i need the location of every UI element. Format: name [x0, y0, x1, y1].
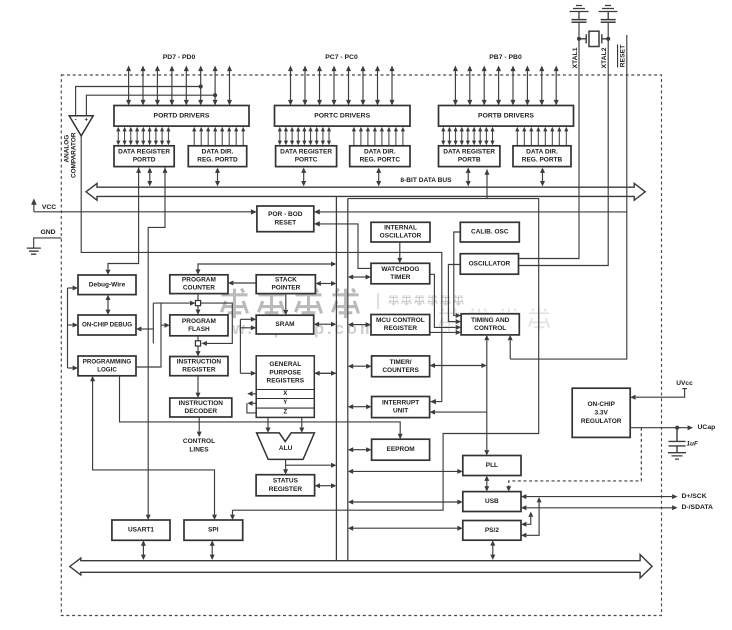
block PORTB DRIVERS — [439, 106, 574, 127]
wire D-/SDATA line — [521, 505, 678, 510]
svg-text:DECODER: DECODER — [185, 408, 218, 415]
block STACK POINTER — [256, 275, 315, 294]
ground symbol above XTAL1 cap — [570, 6, 589, 20]
wire portD register comb 2 — [129, 127, 133, 145]
wire portD register comb 1 — [123, 127, 127, 145]
wire RESET line to POR-BOD — [314, 209, 627, 214]
block USART1 — [112, 520, 170, 540]
svg-text:REG. PORTD: REG. PORTD — [197, 157, 238, 164]
wire PB6 pin arrow — [467, 66, 472, 106]
svg-text:PORTB DRIVERS: PORTB DRIVERS — [478, 112, 534, 119]
ground symbol below 1uF cap — [668, 453, 686, 459]
wire mcu control to timing and control — [430, 330, 461, 335]
svg-text:REG. PORTC: REG. PORTC — [360, 157, 401, 164]
svg-text:SRAM: SRAM — [275, 321, 294, 328]
wire debug branch to program flash left — [161, 303, 170, 328]
wire portD dir comb 7 — [241, 127, 245, 145]
block TIMER COUNTERS — [372, 356, 430, 377]
capacitor C3 1uF — [669, 428, 686, 453]
wire portC dir comb 6 — [394, 127, 398, 145]
ground symbol above XTAL2 cap — [599, 6, 618, 20]
wire PB2 pin arrow — [525, 66, 530, 106]
wire portD dir comb 2 — [206, 127, 210, 145]
svg-text:DATA DIR.: DATA DIR. — [202, 149, 234, 156]
block TIMING AND CONTROL — [461, 314, 519, 335]
wire oscillator to timing and control — [448, 265, 461, 325]
wire gpr to trunk1 — [314, 372, 336, 374]
block PROGRAM COUNTER — [170, 275, 228, 294]
wire portB register comb 4 — [466, 127, 470, 145]
svg-text:PURPOSE: PURPOSE — [269, 369, 301, 376]
svg-text:GENERAL: GENERAL — [269, 361, 301, 368]
wire portD register comb 7 — [160, 127, 164, 145]
svg-text:CONTROL: CONTROL — [474, 325, 506, 332]
svg-text:D-/SDATA: D-/SDATA — [682, 504, 714, 511]
wire data dir portC to bus — [376, 168, 381, 187]
svg-text:UNIT: UNIT — [393, 408, 408, 415]
wire portC register comb 4 — [302, 127, 306, 145]
svg-text:1uF: 1uF — [687, 440, 699, 447]
block CALIB OSC — [460, 222, 519, 242]
svg-text:D+/SCK: D+/SCK — [682, 493, 707, 500]
svg-text:REGISTER: REGISTER — [269, 486, 303, 493]
wire interrupt unit to trunk2 — [348, 404, 372, 409]
svg-text:EEPROM: EEPROM — [387, 446, 415, 453]
wire portB dir comb 2 — [529, 127, 533, 145]
wire PD5 pin arrow — [155, 66, 160, 106]
VCC pin arrow — [31, 198, 37, 211]
svg-text:DATA DIR.: DATA DIR. — [364, 149, 396, 156]
wire PB5 pin arrow — [482, 66, 487, 106]
svg-text:PLL: PLL — [486, 462, 498, 469]
svg-text:COMPARATOR: COMPARATOR — [71, 132, 78, 178]
wire GND stub — [34, 238, 62, 248]
wire usart1 to bottom bus — [141, 540, 146, 560]
wire portB dir comb 7 — [564, 127, 568, 145]
wire portB register comb 2 — [454, 127, 458, 145]
wire PB3 pin arrow — [511, 66, 516, 106]
block ALU — [257, 433, 315, 460]
wire portB dir comb 1 — [522, 127, 526, 145]
block ON-CHIP 3.3V REGULATOR — [572, 388, 630, 437]
wire on-chip debug to fetch nodes — [136, 327, 153, 332]
block POR-BOD RESET — [257, 206, 314, 232]
svg-text:INSTRUCTION: INSTRUCTION — [179, 400, 224, 407]
wire instruction decoder control lines arrow — [197, 417, 202, 437]
wire portB register comb 1 — [447, 127, 451, 145]
svg-text:Z: Z — [283, 410, 287, 416]
block OSCILLATOR — [460, 254, 518, 275]
block SPI — [184, 520, 243, 540]
chip boundary dashed border — [61, 75, 661, 616]
wire ps2 to bottom bus — [490, 540, 495, 560]
svg-text:POR - BOD: POR - BOD — [268, 211, 303, 218]
wire portB register comb 6 — [478, 127, 482, 145]
svg-text:Debug-Wire: Debug-Wire — [89, 281, 126, 288]
wire portC dir comb 2 — [366, 127, 370, 145]
wire PB4 pin arrow — [496, 66, 501, 106]
wire pll to trunk2 — [348, 469, 463, 474]
wire alu to status register — [283, 465, 288, 475]
wire instruction net to sram and gpr — [240, 317, 256, 376]
wire internal bus trunk 2 — [347, 199, 349, 561]
wire XTAL1 vertical — [519, 22, 580, 258]
svg-text:REGULATOR: REGULATOR — [581, 418, 622, 425]
wire portD register comb 6 — [154, 127, 158, 145]
block PROGRAMMING LOGIC — [78, 356, 136, 376]
wire portB dir comb 6 — [557, 127, 561, 145]
wire timer counters to trunk2 — [348, 364, 372, 369]
block INTERNAL OSCILLATOR — [371, 222, 430, 242]
wire portD dir comb 6 — [234, 127, 238, 145]
svg-text:MCU CONTROL: MCU CONTROL — [376, 317, 425, 324]
ground symbol GND — [27, 248, 41, 254]
wire X row pointer — [247, 391, 256, 396]
block INTERRUPT UNIT — [372, 397, 430, 418]
wire D+/SCK line — [521, 494, 678, 499]
wire portC register comb 6 — [315, 127, 319, 145]
svg-text:XTAL1: XTAL1 — [572, 47, 579, 68]
wire instruction register to decoder — [196, 376, 201, 398]
wire portD dir comb 4 — [220, 127, 224, 145]
wire PC6 pin arrow — [303, 66, 308, 106]
wire portB dir comb 4 — [543, 127, 547, 145]
label RESET with overline — [618, 44, 627, 68]
block PLL — [463, 456, 521, 476]
block DATA DIR REG PORTD — [188, 146, 246, 167]
svg-text:TIMER: TIMER — [390, 274, 411, 281]
wire calib osc to timing and control — [454, 232, 461, 318]
block Debug-Wire — [78, 275, 136, 295]
wire spi to bottom bus — [210, 540, 215, 560]
wire PD4 pin arrow — [169, 66, 174, 106]
wire PD6 pin arrow — [141, 66, 146, 106]
wire program counter to fetch node — [197, 294, 199, 301]
wire portC dir comb 5 — [387, 127, 391, 145]
svg-text:RESET: RESET — [619, 44, 626, 68]
block DATA REGISTER PORTC — [276, 146, 337, 167]
wire internal net to SPI — [230, 510, 235, 520]
svg-text:STATUS: STATUS — [273, 478, 299, 485]
wire debug port stub with arrows — [68, 286, 79, 371]
wire portC register comb 1 — [284, 127, 288, 145]
svg-text:LINES: LINES — [189, 447, 209, 454]
wire portD register comb 0 — [116, 127, 120, 145]
crystal Y1 — [577, 31, 610, 46]
wire status register to trunk1 — [315, 483, 337, 488]
wire PD1 pin arrow — [213, 66, 218, 106]
wire usb to trunk2 — [348, 500, 463, 505]
wire PD7 pin arrow — [126, 66, 131, 106]
wire Y row pointer — [247, 401, 256, 406]
svg-text:CONTROL: CONTROL — [183, 438, 215, 445]
wire PC3 pin arrow — [346, 66, 351, 106]
wire sram to trunk1 — [314, 322, 337, 327]
analog comparator input wire 1 — [76, 84, 203, 115]
svg-text:ANALOG: ANALOG — [63, 135, 70, 163]
block DATA REGISTER PORTB — [439, 146, 500, 167]
wire watchdog to trunk2 — [348, 275, 371, 280]
wire PC5 pin arrow — [317, 66, 322, 106]
svg-text:PORTC: PORTC — [295, 157, 318, 164]
wire stack pointer to trunk1 — [316, 281, 337, 286]
svg-text:XTAL2: XTAL2 — [601, 47, 608, 68]
wire portC dir comb 4 — [380, 127, 384, 145]
svg-text:WATCHDOG: WATCHDOG — [381, 266, 419, 273]
wire portB register comb 7 — [484, 127, 488, 145]
wire portC dir comb 3 — [373, 127, 377, 145]
svg-text:X: X — [283, 391, 287, 397]
wire mcu control to trunk2 — [348, 322, 371, 327]
svg-text:DATA DIR.: DATA DIR. — [526, 149, 558, 156]
wire portC register comb 3 — [296, 127, 300, 145]
block PORTD DRIVERS — [114, 106, 249, 127]
svg-text:USART1: USART1 — [128, 527, 154, 534]
wire square1 to program flash — [196, 306, 201, 315]
wire portB register comb 3 — [460, 127, 464, 145]
wire data register portC to bus — [301, 168, 306, 187]
wire fetch loop around flash — [201, 303, 233, 346]
block MCU CONTROL REGISTER — [371, 315, 430, 335]
svg-text:REGISTER: REGISTER — [384, 325, 418, 332]
wire portB register comb 8 — [490, 127, 494, 145]
wire portC register comb 8 — [327, 127, 331, 145]
watermark faint hanzi center — [439, 308, 549, 331]
wire usb to ps2 link — [521, 512, 533, 527]
wire ps2 to trunk2 — [348, 526, 463, 531]
block INSTRUCTION REGISTER — [170, 357, 228, 376]
wire portD register comb 3 — [135, 127, 139, 145]
wire program flash to square 2 — [197, 336, 199, 341]
svg-text:UCap: UCap — [698, 424, 716, 431]
wire portD register comb 5 — [148, 127, 152, 145]
wire stack pointer to program counter — [228, 281, 256, 286]
svg-text:REGISTERS: REGISTERS — [267, 378, 305, 385]
wire portC dir comb 0 — [352, 127, 356, 145]
wire PC4 pin arrow — [332, 66, 337, 106]
bus 8-bit data bus bottom arrow — [70, 555, 652, 578]
wire PD3 pin arrow — [184, 66, 189, 106]
wire portD register to USART1 — [146, 168, 168, 521]
svg-text:OSCILLATOR: OSCILLATOR — [380, 233, 422, 240]
wire PB7 pin arrow — [453, 66, 458, 106]
wire PC1 pin arrow — [375, 66, 380, 106]
wire debug vertical to squares — [153, 301, 195, 344]
svg-text:PB7 - PB0: PB7 - PB0 — [489, 54, 522, 61]
svg-text:-: - — [75, 118, 77, 124]
svg-text:INTERNAL: INTERNAL — [384, 225, 417, 232]
svg-text:DATA REGISTER: DATA REGISTER — [443, 149, 495, 156]
svg-text:PORTC DRIVERS: PORTC DRIVERS — [314, 112, 370, 119]
svg-text:PORTD DRIVERS: PORTD DRIVERS — [154, 112, 210, 119]
svg-text:COUNTERS: COUNTERS — [382, 367, 419, 374]
wire timer counters to spine — [430, 363, 487, 368]
svg-text:INSTRUCTION: INSTRUCTION — [177, 359, 222, 366]
svg-text:+: + — [84, 118, 88, 124]
wire watchdog to POR-BOD — [314, 221, 372, 268]
wire portC register comb 7 — [321, 127, 325, 145]
wire portD register comb 4 — [141, 127, 145, 145]
wire portD register comb 8 — [166, 127, 170, 145]
wire eeprom to trunk2 — [348, 447, 372, 452]
svg-text:USB: USB — [485, 498, 499, 505]
svg-text:TIMER/: TIMER/ — [390, 359, 412, 366]
block SRAM — [256, 315, 314, 334]
wire data dir portD to bus — [215, 168, 220, 187]
svg-text:CALIB. OSC: CALIB. OSC — [471, 229, 509, 236]
svg-text:STACK: STACK — [275, 277, 297, 284]
wire timing control vertical spine — [484, 335, 489, 456]
svg-text:DATA REGISTER: DATA REGISTER — [118, 149, 170, 156]
wire square2 to instruction register — [196, 346, 201, 357]
svg-text:GND: GND — [40, 229, 55, 236]
wire portD dir comb 3 — [213, 127, 217, 145]
wire internal oscillator to watchdog — [397, 242, 402, 263]
svg-text:PROGRAM: PROGRAM — [182, 277, 216, 284]
block PROGRAM FLASH — [170, 315, 228, 336]
wire debug-wire to on-chip debug — [106, 295, 111, 315]
wire programming logic to EEPROM — [120, 376, 403, 439]
wire portC dir comb 1 — [359, 127, 363, 145]
wire data register portB to bus — [466, 168, 471, 187]
svg-text:PORTD: PORTD — [133, 157, 156, 164]
wire gpr to alu left — [266, 417, 271, 433]
svg-text:POINTER: POINTER — [271, 285, 300, 292]
wire dplus line to ps2 link — [521, 497, 542, 538]
block STATUS REGISTER — [256, 475, 315, 496]
capacitor C1 on XTAL1 — [572, 20, 587, 23]
node fetch square 1 — [195, 301, 200, 306]
svg-text:PORTB: PORTB — [458, 157, 481, 164]
wire program counter to trunk1 — [196, 262, 337, 275]
svg-text:OSCILLATOR: OSCILLATOR — [469, 260, 511, 267]
wire RESET vertical — [510, 35, 627, 359]
wire alu output to trunk1 — [286, 459, 337, 467]
wire XTAL2 vertical — [519, 22, 609, 265]
svg-text:PS/2: PS/2 — [485, 527, 499, 534]
wire portD register to debug-wire — [106, 168, 142, 276]
wire stack pointer to sram — [283, 294, 288, 316]
wire portD dir comb 0 — [192, 127, 196, 145]
svg-text:ON-CHIP DEBUG: ON-CHIP DEBUG — [82, 322, 132, 329]
node fetch square 2 — [195, 341, 200, 346]
wire PD0 pin arrow — [227, 66, 232, 106]
wire portD dir comb 5 — [227, 127, 231, 145]
wire portC register comb 0 — [278, 127, 282, 145]
wire programming logic to SPI feed — [90, 376, 217, 520]
watermark hanzi small right — [378, 293, 463, 309]
block WATCHDOG TIMER — [371, 263, 430, 284]
watermark big hanzi — [221, 289, 358, 318]
wire portC register comb 5 — [308, 127, 312, 145]
wire data register portD to bus — [147, 168, 152, 187]
svg-text:PROGRAMMING: PROGRAMMING — [83, 358, 132, 365]
block INSTRUCTION DECODER — [170, 398, 232, 417]
wire analog comparator output to interrupt unit — [81, 136, 442, 404]
wire internal bus trunk 1 — [335, 196, 337, 560]
wire portC register comb 2 — [290, 127, 294, 145]
wire PC2 pin arrow — [361, 66, 366, 106]
svg-text:VCC: VCC — [42, 204, 56, 211]
wire PB1 pin arrow — [539, 66, 544, 106]
wire portD dir comb 1 — [199, 127, 203, 145]
bus 8-bit data bus top arrow — [86, 183, 645, 200]
svg-text:FLASH: FLASH — [188, 326, 210, 333]
block PS2 — [463, 521, 521, 541]
svg-text:COUNTER: COUNTER — [183, 285, 215, 292]
block DATA DIR REG PORTC — [350, 146, 410, 167]
wire spine to interrupt unit — [430, 410, 487, 415]
block PORTC DRIVERS — [275, 106, 411, 127]
wire portC dir comb 7 — [401, 127, 405, 145]
wire portB dir comb 3 — [536, 127, 540, 145]
wire portB register comb 0 — [441, 127, 445, 145]
block ON-CHIP DEBUG — [78, 315, 136, 335]
svg-text:INTERRUPT: INTERRUPT — [382, 400, 419, 407]
wire PC0 pin arrow — [390, 66, 395, 106]
svg-text:DATA REGISTER: DATA REGISTER — [280, 149, 332, 156]
svg-text:PD7 - PD0: PD7 - PD0 — [163, 54, 196, 61]
svg-text:UVcc: UVcc — [676, 380, 693, 387]
block DATA REGISTER PORTD — [114, 146, 174, 167]
svg-text:LOGIC: LOGIC — [97, 366, 117, 373]
svg-text:8-BIT DATA BUS: 8-BIT DATA BUS — [400, 177, 452, 184]
wire PC7 pin arrow — [288, 66, 293, 106]
wire watchdog to timing and control — [430, 274, 461, 330]
block DATA DIR REG PORTB — [513, 146, 571, 167]
wire PD2 pin arrow — [198, 66, 203, 106]
block USB — [463, 492, 521, 512]
wire programming logic right to flash net — [136, 325, 161, 367]
svg-text:REG. PORTB: REG. PORTB — [522, 157, 563, 164]
wire UVcc to regulator — [630, 389, 687, 400]
svg-text:PROGRAM: PROGRAM — [182, 318, 216, 325]
svg-text:PC7 - PC0: PC7 - PC0 — [325, 54, 358, 61]
svg-text:REGISTER: REGISTER — [182, 367, 216, 374]
svg-text:TIMING AND: TIMING AND — [471, 317, 510, 324]
svg-text:Y: Y — [283, 400, 287, 406]
capacitor C2 on XTAL2 — [601, 20, 616, 23]
svg-text:SPI: SPI — [208, 527, 219, 534]
svg-text:3.3V: 3.3V — [595, 409, 609, 416]
wire pll to usb — [484, 476, 489, 492]
wire trunk2 top horizontal to usb column — [233, 199, 539, 511]
svg-text:ALU: ALU — [279, 445, 293, 452]
wire PB0 pin arrow — [554, 66, 559, 106]
wire portB register feed from internal net — [485, 169, 490, 198]
wire regulator output UCap — [630, 425, 693, 430]
svg-text:ON-CHIP: ON-CHIP — [587, 401, 615, 408]
svg-text:RESET: RESET — [274, 220, 296, 227]
wire regulator to USB dashed — [506, 428, 641, 492]
wire portB dir comb 5 — [550, 127, 554, 145]
block EEPROM — [372, 439, 430, 460]
analog comparator input wire 2 — [86, 93, 217, 116]
wire portB register comb 5 — [472, 127, 476, 145]
wire data dir portB to bus — [540, 168, 545, 187]
op-amp analog comparator triangle — [69, 116, 93, 136]
wire reset line to timing and control — [508, 335, 513, 359]
block GENERAL PURPOSE REGISTERS — [256, 356, 314, 418]
wire gpr to alu right — [299, 417, 304, 433]
wire portB dir comb 0 — [515, 127, 519, 145]
wire VCC to POR-BOD — [34, 209, 257, 214]
wire gpr right double arrow — [314, 371, 336, 376]
wire Z row link — [247, 403, 256, 413]
